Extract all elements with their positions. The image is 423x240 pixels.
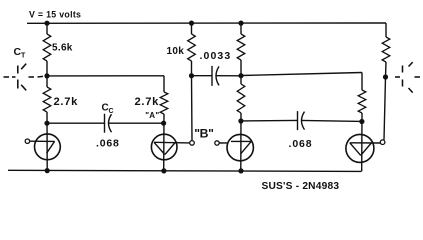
svg-text:2.7k: 2.7k — [54, 96, 79, 108]
svg-text:2.7k: 2.7k — [135, 96, 160, 108]
svg-text:V = 15 volts: V = 15 volts — [29, 10, 81, 20]
svg-text:5.6k: 5.6k — [52, 43, 73, 54]
svg-text:T: T — [21, 53, 26, 60]
svg-text:"B": "B" — [194, 126, 213, 140]
svg-text:SUS'S - 2N4983: SUS'S - 2N4983 — [262, 181, 340, 192]
svg-text:"A": "A" — [145, 111, 159, 120]
svg-text:.068: .068 — [289, 138, 313, 150]
svg-text:10k: 10k — [167, 46, 185, 57]
svg-text:.068: .068 — [96, 137, 120, 149]
svg-text:.0033: .0033 — [200, 50, 232, 62]
svg-text:C: C — [109, 108, 114, 115]
